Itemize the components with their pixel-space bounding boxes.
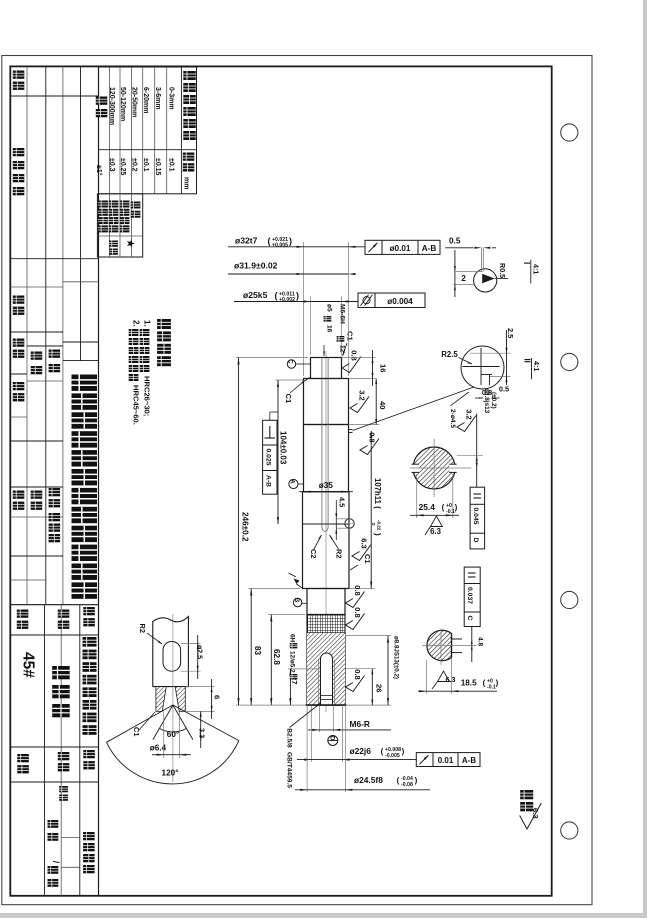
binder hole 1: [561, 124, 578, 141]
datum flag at o35 bottom: [297, 584, 303, 588]
thread relief lines in slot: [321, 695, 333, 697]
svg-text:ø25k5: ø25k5: [243, 290, 268, 300]
center hole detail slot: [163, 642, 181, 672]
label genggai neirong: [13, 148, 24, 156]
svg-text:4:1: 4:1: [532, 361, 541, 371]
svg-text:(±0.2): (±0.2): [490, 392, 497, 409]
svg-text:I: I: [522, 262, 531, 264]
svg-text:D: D: [328, 736, 335, 741]
feature class sub-table: [97, 194, 142, 257]
svg-text:3.2: 3.2: [358, 390, 367, 400]
detail I groove lines: [480, 248, 482, 272]
label shenhe: [13, 382, 24, 390]
binder hole 2: [561, 353, 578, 370]
leader from perpendicularity frame: [269, 412, 271, 420]
label bili: [58, 752, 70, 760]
name huangjianping: [49, 513, 61, 521]
svg-text:2.5: 2.5: [506, 328, 515, 338]
svg-text:±0.25: ±0.25: [119, 158, 126, 176]
tapped slot M6: [321, 653, 333, 705]
binder hole 3: [561, 591, 578, 608]
svg-text:(: (: [381, 747, 384, 756]
svg-text:0.8: 0.8: [353, 669, 362, 679]
fan 60 arc: [159, 728, 186, 732]
tolerance table columns: [99, 67, 197, 194]
svg-text:83: 83: [253, 646, 262, 656]
svg-text:6.3: 6.3: [360, 538, 369, 548]
dim 25.4 extension lines: [416, 474, 418, 518]
svg-text:+0.002: +0.002: [279, 297, 295, 303]
dim 62.8 extension line: [268, 614, 305, 616]
dim o8.8js13 bottom right: [346, 635, 391, 637]
svg-text:ø2.5: ø2.5: [196, 645, 203, 659]
shaft section o25k5 top: [311, 358, 342, 379]
dim M6 line: [308, 729, 391, 731]
title block row lines upper: [10, 96, 98, 580]
svg-text:45#: 45#: [20, 652, 37, 678]
svg-text:±0.1: ±0.1: [142, 158, 149, 172]
roughness 6.3 below section 1: [431, 516, 443, 527]
product fengjilei zhiliu wushua dianji: [83, 637, 97, 647]
svg-text:): ): [289, 236, 292, 246]
svg-text:±0.3: ±0.3: [108, 158, 115, 172]
gdt frame runout 0.01 A-B top: [365, 240, 440, 254]
svg-text:0.8: 0.8: [353, 585, 362, 595]
dim 6: [185, 686, 214, 688]
svg-text:C1: C1: [132, 727, 141, 736]
dim 104 line: [277, 380, 279, 524]
svg-text:50-120mm: 50-120mm: [119, 87, 126, 121]
tolerance table frame: [99, 67, 197, 194]
label riqi: [13, 339, 24, 347]
svg-text:+0.005: +0.005: [272, 242, 288, 248]
dim 83 extension line: [249, 588, 301, 590]
dim 16: [342, 357, 376, 359]
label jiaodui: [31, 352, 43, 360]
label biaoji: [13, 71, 24, 79]
svg-text:M6-6H: M6-6H: [339, 304, 346, 324]
label tuhao: [17, 754, 29, 762]
knurl band: [307, 615, 345, 634]
svg-text:±0.2: ±0.2: [131, 158, 138, 172]
svg-text:0.8: 0.8: [353, 607, 362, 617]
section 1 roughness 3.2: [457, 409, 476, 431]
datum circle D below: [328, 736, 338, 746]
shaft hatched bottom section: [307, 633, 345, 705]
svg-text:): ): [455, 503, 458, 512]
thread crest lines: [317, 660, 319, 705]
section view 1 hatched circle: [413, 447, 455, 489]
inner frame: [10, 66, 551, 895]
tech requirements heading jishu yaoqiu: [157, 319, 171, 329]
svg-text:M6-R: M6-R: [350, 719, 370, 729]
svg-text:C1: C1: [363, 554, 372, 563]
svg-text:26: 26: [375, 684, 384, 692]
label sheji: [49, 488, 61, 496]
svg-text:(: (: [483, 679, 486, 688]
roughness 0.8 on bottom section right: [346, 669, 365, 691]
dim o22j6 extension lines: [310, 705, 312, 762]
svg-text:2: 2: [461, 274, 466, 283]
svg-text:ø5: ø5: [326, 304, 333, 312]
svg-text:12/ø5.2: 12/ø5.2: [289, 651, 296, 673]
header jiben chicun fenduan: [183, 71, 195, 80]
svg-text:246±0.2: 246±0.2: [241, 512, 250, 542]
dim o32t7 line and arrows: [228, 246, 365, 248]
svg-text:ø24.5f8: ø24.5f8: [354, 775, 383, 785]
part name dianjizhou: [52, 666, 70, 679]
svg-text:0.5: 0.5: [499, 385, 509, 394]
roughness 0.8 on knurl right: [346, 607, 365, 629]
svg-text:20-50mm: 20-50mm: [131, 87, 138, 117]
groove mark detail II location: [349, 429, 353, 431]
gdt frame perpendicularity 0.025 A-B vertical: [263, 420, 277, 494]
svg-text:ø32t7: ø32t7: [235, 236, 258, 246]
dim 3.3: [200, 711, 202, 748]
shaft section o31.9: [304, 425, 349, 492]
svg-text:4.5: 4.5: [338, 497, 347, 507]
roughness 0.8 on o31.9: [360, 432, 379, 454]
header gongcha mm: [183, 153, 195, 161]
svg-text:-0.005: -0.005: [385, 753, 400, 759]
shaft section o24.5 below o35: [307, 589, 345, 615]
svg-text:1.: 1.: [143, 320, 152, 327]
svg-text:16: 16: [326, 325, 333, 333]
svg-text:120-300mm: 120-300mm: [108, 87, 115, 125]
section view 2 flat tab lines: [452, 638, 463, 640]
svg-text:C: C: [466, 616, 473, 621]
svg-text:±1°: ±1°: [95, 165, 103, 176]
svg-text:4.8: 4.8: [477, 637, 484, 646]
shaft bottom face: [306, 704, 347, 706]
shaft section o32t7: [304, 379, 349, 425]
section view 1 flat notches: [412, 464, 420, 472]
svg-text:HRC26~30;: HRC26~30;: [143, 376, 152, 416]
dim 83 line: [250, 589, 252, 706]
label danwei: [83, 750, 95, 758]
dim 2 groove depth: [454, 250, 456, 297]
company name zhongshan yuelai: [72, 375, 98, 391]
svg-text:18.5: 18.5: [461, 679, 477, 688]
svg-text:2-ø4.5: 2-ø4.5: [449, 409, 456, 428]
svg-text:12: 12: [339, 345, 346, 353]
label cundang biaoji: [83, 832, 95, 840]
svg-text:): ): [296, 291, 299, 301]
svg-text:mm: mm: [183, 177, 190, 189]
label xinghao: [83, 607, 95, 615]
gdt frame runout 0.01 A-B bottom: [416, 753, 480, 767]
roughness 6.3 and C1 on o35 right: [352, 538, 371, 560]
label gongyi: [31, 491, 43, 499]
svg-text:): ): [496, 679, 499, 688]
cross hole o4.5 on right edge: [345, 519, 354, 528]
svg-text:HRC45~60.: HRC45~60.: [132, 385, 141, 425]
svg-text:25.4: 25.4: [419, 502, 436, 512]
dim 62.8 line: [270, 615, 272, 706]
dim o2.5: [181, 642, 201, 644]
binder hole 4: [561, 822, 578, 839]
label gong zhang di zhang: [48, 820, 59, 828]
detail II dim 2.5: [470, 352, 511, 354]
svg-text:0.045: 0.045: [472, 508, 479, 525]
fan 120 arc: [107, 741, 239, 784]
svg-text:0.8: 0.8: [350, 350, 359, 360]
svg-text:(: (: [268, 236, 271, 246]
svg-text:2.: 2.: [132, 320, 141, 327]
section view 1 centerlines: [410, 467, 472, 469]
label zhitu: [49, 350, 61, 358]
svg-text:4:1: 4:1: [532, 264, 541, 274]
svg-text:ø0.004: ø0.004: [387, 297, 413, 306]
svg-text:C1: C1: [346, 331, 355, 341]
square symbol: [109, 241, 118, 247]
svg-text:6.3: 6.3: [531, 808, 540, 819]
label cailiao: [17, 610, 29, 618]
svg-text:II: II: [523, 359, 532, 363]
fan 60 deg lines: [153, 705, 173, 740]
dim o32t7 extension lines: [303, 242, 305, 376]
dim 27 extension line: [288, 668, 320, 670]
datum circle B on o24.5: [293, 598, 301, 606]
dim 18.5 line: [425, 660, 427, 694]
svg-text:40: 40: [378, 401, 387, 409]
detail II leader to shaft groove: [353, 387, 475, 431]
keyway line in o35: [303, 523, 350, 525]
svg-text:): ): [373, 533, 382, 536]
svg-text:R2.5: R2.5: [441, 350, 458, 359]
svg-text:(: (: [442, 503, 445, 512]
center hole detail stub outline: [153, 617, 189, 687]
gdt frame symmetry 0.045 D vertical: [470, 487, 485, 549]
dim o31.9 line: [228, 273, 349, 275]
svg-text:R2: R2: [138, 624, 147, 633]
svg-text:D: D: [472, 538, 479, 543]
label jiaodu: [96, 97, 108, 105]
roughness 0.8 on o24.5 right: [346, 585, 365, 607]
section 1 dim line to gdt: [476, 414, 478, 487]
dim o25k5 line: [234, 301, 358, 303]
svg-text:A: A: [289, 479, 296, 484]
svg-text:ø0.01: ø0.01: [390, 244, 411, 253]
svg-text:ø8.8js13: ø8.8js13: [483, 388, 490, 414]
roughness 3.2 on o32: [350, 390, 369, 412]
label mingcheng: [58, 610, 70, 618]
scale value: [59, 786, 68, 792]
gdt frame symmetry 0.037 C vertical: [464, 567, 480, 626]
section 2 dim 4.8 line below gdt: [471, 627, 473, 663]
svg-text:62.8: 62.8: [272, 649, 281, 665]
svg-text:16: 16: [379, 364, 388, 372]
svg-text:): ): [415, 776, 418, 785]
dim o22j6 line: [297, 759, 416, 761]
dim 246 line: [238, 358, 240, 706]
svg-text:0.5: 0.5: [449, 237, 461, 246]
svg-text:6.3: 6.3: [430, 527, 442, 536]
svg-text:B2.5/8: B2.5/8: [286, 728, 293, 748]
svg-text:±0.15: ±0.15: [154, 158, 161, 176]
detail I thread profile arrow: [482, 274, 494, 284]
datum circle A on o31.9: [289, 479, 298, 488]
svg-text:104±0.03: 104±0.03: [279, 431, 288, 465]
svg-text:6: 6: [213, 695, 222, 699]
dim 107h11: [350, 588, 375, 590]
svg-text:A-B: A-B: [462, 756, 476, 765]
svg-text:R0.5: R0.5: [498, 263, 507, 278]
svg-text:0.025: 0.025: [264, 449, 271, 466]
gdt frame cylindricity 0.004: [358, 293, 425, 308]
dim 26 bottom right: [346, 668, 376, 670]
svg-text:120°: 120°: [162, 769, 179, 778]
dim 25.4 line: [410, 514, 459, 516]
dim o24.5f8 line: [295, 789, 430, 791]
dim 246 extension lines: [236, 357, 308, 359]
svg-text:107h11 (: 107h11 (: [373, 478, 382, 509]
detail II circle: [461, 346, 504, 389]
center bore lines: [321, 358, 323, 528]
svg-text:B: B: [293, 598, 300, 603]
svg-text:6-20mm: 6-20mm: [142, 87, 149, 113]
dim o35 line with arrows: [299, 491, 353, 493]
detail II profile lines: [463, 366, 500, 368]
svg-text:C2: C2: [309, 549, 318, 558]
svg-text:ø31.9±0.02: ø31.9±0.02: [234, 261, 278, 271]
shaft section o35: [303, 492, 350, 589]
svg-text:R2: R2: [335, 549, 344, 558]
label pizhun: [13, 491, 24, 499]
section 1 leader diagonal: [450, 392, 468, 406]
detail I circle: [474, 269, 497, 292]
svg-text:-0.22: -0.22: [377, 520, 382, 531]
svg-text:0.037: 0.037: [466, 587, 473, 604]
center hole detail centerline: [172, 614, 174, 782]
section view 2 centerlines: [422, 645, 476, 647]
svg-text:3.2: 3.2: [465, 409, 474, 419]
dim 4.5 cross hole: [335, 500, 337, 540]
dim 40: [349, 424, 380, 426]
shaft centerline: [325, 351, 327, 712]
svg-text:): ): [402, 747, 405, 756]
svg-text:A-B: A-B: [422, 244, 437, 253]
svg-text:(: (: [397, 776, 400, 785]
svg-text:★: ★: [125, 239, 136, 248]
chamfer mark at o25-o32 shoulder: [306, 378, 310, 381]
roughness 6.3 below section 2: [438, 671, 450, 682]
svg-text:C1: C1: [284, 394, 293, 404]
svg-text:ø8.8JS13(±0.2): ø8.8JS13(±0.2): [393, 636, 400, 679]
title block vertical line x=98.5 (separator): [98, 66, 100, 895]
svg-text:6H: 6H: [289, 634, 296, 643]
dim o25k5 extension lines: [310, 296, 312, 355]
section view 2 hatched circle: [427, 630, 452, 660]
label qianzi: [13, 296, 24, 304]
svg-text:ø22j6: ø22j6: [350, 746, 372, 756]
svg-text:60°: 60°: [167, 730, 179, 739]
dim o24.5f8 extension lines: [306, 705, 308, 792]
svg-text:-0.08: -0.08: [401, 782, 413, 788]
svg-text:0.01: 0.01: [438, 756, 454, 765]
svg-text:GB/T4459.5: GB/T4459.5: [286, 752, 293, 788]
datum circle C on o25: [287, 360, 295, 368]
feature labels: [131, 202, 141, 209]
svg-text:(: (: [275, 291, 278, 301]
roughness 0.8 on o25: [342, 350, 361, 372]
svg-text:ø35: ø35: [319, 481, 334, 490]
title block row lines lower: [10, 605, 98, 868]
svg-text:A-B: A-B: [264, 475, 271, 487]
qiyu surface finish mark: [520, 790, 533, 799]
hatch left of slot: [307, 633, 345, 705]
center hole callout leader: [290, 703, 321, 728]
center hole detail hatch band: [156, 687, 166, 712]
svg-text:3.3: 3.3: [198, 728, 207, 738]
svg-text:C: C: [287, 359, 294, 364]
svg-text:±0.1: ±0.1: [168, 158, 175, 172]
fan 120 deg lines: [107, 705, 173, 742]
dim 104 extension line: [276, 379, 304, 381]
dim M6 extension lines: [318, 705, 320, 732]
svg-text:3-6mm: 3-6mm: [154, 87, 161, 110]
svg-text:0-3mm: 0-3mm: [168, 87, 175, 110]
svg-text:6.3: 6.3: [446, 675, 456, 684]
title block column lines: [27, 66, 81, 895]
dim 27 line: [289, 669, 291, 705]
